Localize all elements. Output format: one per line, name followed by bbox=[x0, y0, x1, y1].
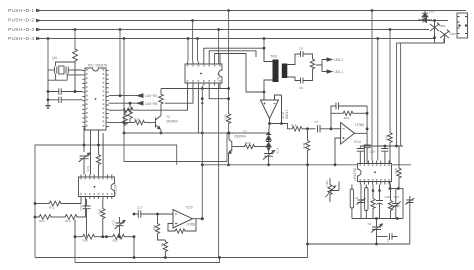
resistor R21 vert bbox=[328, 183, 332, 196]
zener ZD2 bbox=[440, 30, 450, 39]
wire base to T2 bbox=[146, 122, 156, 124]
wire top rail bbox=[360, 145, 403, 147]
resistor R33 vert bbox=[157, 214, 159, 222]
wire fb right col bbox=[366, 106, 368, 133]
wire drop x188 bbox=[187, 39, 189, 62]
node y133-228 bbox=[227, 132, 230, 135]
node output bbox=[268, 122, 271, 125]
wire pin down r36 bbox=[372, 185, 374, 198]
transformer TR3 secondary bbox=[282, 64, 288, 79]
node L1-372 bbox=[371, 9, 374, 12]
wire pin8 top bbox=[215, 54, 264, 93]
wire frame left bbox=[35, 145, 177, 258]
node frame a bbox=[83, 144, 86, 147]
op-amp IC20 bbox=[173, 210, 193, 229]
wire gnd col bbox=[47, 70, 49, 106]
wire y188 bbox=[390, 188, 403, 190]
node row-106 bbox=[105, 235, 108, 238]
resistor R14 bbox=[37, 215, 53, 220]
svg-text:C15: C15 bbox=[86, 166, 90, 172]
wire T2 emitter down bbox=[160, 130, 162, 134]
ground caps bbox=[45, 106, 50, 109]
svg-text:ZD1: ZD1 bbox=[440, 24, 446, 28]
resistor R31 vert bbox=[101, 207, 105, 220]
wire laser B bbox=[109, 102, 137, 104]
wire lower input loop bbox=[168, 224, 174, 232]
diode D10 bbox=[422, 11, 428, 20]
wire bus PUSH-D1 bbox=[41, 10, 466, 12]
svg-text:LED-1: LED-1 bbox=[334, 70, 343, 74]
wire pin down r31 bbox=[102, 199, 104, 207]
PIC TO IC16 LINKS bbox=[79, 128, 104, 175]
wire feedback bbox=[270, 95, 282, 124]
node ZD-top bbox=[433, 19, 436, 22]
node toprail-396 bbox=[395, 145, 398, 148]
resistor R17 bbox=[310, 58, 314, 71]
node laserA x115 bbox=[119, 94, 122, 97]
wire xtal gnd rail bbox=[48, 79, 67, 81]
ic IC16 top pins bbox=[81, 175, 112, 178]
wire p2 stubs bbox=[365, 185, 367, 219]
trimmer C15 bbox=[79, 153, 91, 162]
wire botpin1 bbox=[136, 86, 188, 111]
svg-text:PUSH~D-3: PUSH~D-3 bbox=[8, 27, 34, 32]
node c14 row bbox=[118, 235, 121, 238]
wire pic pin down a bbox=[84, 128, 85, 152]
resistor R29 base bbox=[133, 120, 146, 124]
wire r18 to c bbox=[304, 128, 316, 130]
node br-307 bbox=[306, 243, 309, 246]
resistor R19 vert bbox=[307, 129, 309, 139]
wire secondary top bbox=[287, 54, 300, 65]
wire drop x115 bbox=[119, 30, 121, 96]
MID BUS Y133 bbox=[123, 132, 269, 135]
svg-text:C7: C7 bbox=[315, 120, 319, 124]
wire pic pin down c bbox=[98, 130, 100, 153]
LONG MID RAIL bbox=[124, 133, 411, 166]
terminal arrow LED1 bbox=[327, 70, 332, 73]
wire pin down x364 bbox=[363, 146, 365, 161]
node y164-308 bbox=[306, 163, 309, 166]
trimmer C14 bbox=[115, 217, 126, 229]
wire y164 rail bbox=[202, 164, 411, 166]
capacitor C27 right bbox=[405, 196, 414, 244]
node L3-390 bbox=[389, 28, 392, 31]
wire y128 to r18 bbox=[282, 124, 291, 129]
capacitor C10 bbox=[59, 88, 64, 94]
wire base bbox=[232, 146, 243, 148]
wire bottom rail bbox=[352, 218, 403, 220]
svg-text:R10: R10 bbox=[83, 239, 89, 243]
wire fb right bbox=[187, 219, 197, 231]
svg-text:R15: R15 bbox=[65, 219, 71, 223]
wire botpin2 bbox=[165, 86, 193, 104]
TOP RIGHT PROTECTION CLUSTER bbox=[418, 11, 450, 44]
wire bus PUSH-D4 bbox=[41, 38, 435, 40]
svg-text:2N3904: 2N3904 bbox=[234, 135, 246, 139]
node L1-228 bbox=[227, 9, 230, 12]
wire drop x372 bbox=[371, 11, 373, 161]
wire botpin5 long bbox=[201, 86, 203, 219]
wire chain bbox=[268, 147, 270, 154]
diode D9 bbox=[266, 140, 271, 147]
ic IC18 body bbox=[358, 164, 392, 182]
wire T2 collector up bbox=[160, 106, 162, 116]
op-amp IC20 marks bbox=[175, 214, 177, 225]
wire to opamp bbox=[331, 128, 341, 130]
wire drop x264 bbox=[263, 39, 265, 63]
wire pin to R26 bbox=[109, 109, 122, 111]
resistor R-pullup bbox=[73, 47, 78, 63]
wire drop x124 bbox=[123, 39, 125, 134]
node cap-in bbox=[133, 213, 136, 216]
wire xtal to pin9 bbox=[56, 62, 83, 70]
op-amp IC15 marks bbox=[264, 103, 276, 105]
wire output bbox=[355, 133, 368, 145]
node base x121 bbox=[123, 121, 126, 124]
resistor R34 vert bbox=[163, 240, 167, 253]
wire T1 collector bbox=[229, 133, 232, 142]
node chain mid bbox=[267, 147, 270, 150]
svg-text:C12: C12 bbox=[276, 148, 280, 154]
trimmer C14 arrow bbox=[123, 221, 125, 223]
transistor T2 emitter arrow bbox=[158, 126, 161, 129]
wire cap to opamp bbox=[151, 213, 173, 215]
svg-text:LAS~RA: LAS~RA bbox=[145, 94, 158, 98]
terminal arrow D2 bbox=[36, 19, 42, 23]
PIC MICROCONTROLLER bbox=[56, 62, 109, 130]
wire r33 down bbox=[158, 235, 166, 240]
node L4-121 bbox=[123, 37, 126, 40]
svg-text:C17: C17 bbox=[137, 206, 143, 210]
wire output down bbox=[269, 119, 271, 124]
trimmer C25 bbox=[371, 219, 383, 233]
trimmer C15 arrow bbox=[88, 153, 90, 155]
capacitor C11 bbox=[59, 97, 64, 103]
IC15 COMPARATOR (down) bbox=[261, 92, 289, 125]
ic IC16 center dot bbox=[94, 186, 96, 188]
wire pic pin down b bbox=[90, 130, 92, 175]
node T1 collector bbox=[228, 132, 231, 135]
wire x75 stub bbox=[74, 220, 76, 237]
node c23 top bbox=[378, 189, 381, 192]
svg-text:C6: C6 bbox=[355, 196, 359, 200]
ic U1 PIC body bbox=[85, 68, 106, 130]
capacitor C-out bbox=[364, 145, 371, 165]
crystal Q4 bbox=[59, 66, 64, 74]
wire secondary bottom bbox=[287, 77, 300, 81]
wire pic pin down d bbox=[102, 133, 104, 175]
trimpot P2 tall bbox=[365, 188, 368, 211]
node B1-219 bbox=[218, 256, 221, 259]
ic U1 left pins bbox=[82, 71, 85, 127]
zener ZD1 bbox=[430, 23, 440, 32]
node emitter bbox=[160, 132, 163, 135]
node row-134 bbox=[133, 235, 136, 238]
wire left input bbox=[263, 92, 265, 100]
wire botpin4 bbox=[209, 86, 228, 99]
op-amp IC15 bbox=[261, 100, 279, 119]
node y164-202 bbox=[201, 163, 204, 166]
svg-text:IC20: IC20 bbox=[186, 206, 193, 210]
wire cap row2 bbox=[48, 99, 82, 101]
pin numbers IC18 bbox=[360, 164, 390, 180]
wire botpin3 bbox=[197, 86, 199, 134]
pin numbers IC16 bbox=[80, 178, 112, 195]
transistor T2 bbox=[156, 116, 162, 130]
capacitor C9 bbox=[301, 78, 308, 84]
node x75-91 bbox=[74, 90, 77, 93]
svg-text:LM13700: LM13700 bbox=[353, 167, 357, 181]
wire out cap row bbox=[134, 213, 138, 215]
wire r21 top bbox=[329, 178, 331, 183]
wire r37 down bbox=[390, 212, 392, 219]
svg-text:74L02: 74L02 bbox=[217, 72, 221, 81]
ic IC18 center dot bbox=[374, 171, 376, 173]
wire collector to y88 bbox=[160, 89, 162, 93]
wire r27 down bbox=[129, 121, 131, 123]
resistor R35 bbox=[397, 167, 401, 180]
resistor R10 bbox=[81, 234, 97, 239]
node fb r1 bbox=[366, 112, 369, 115]
transistor T1 bbox=[229, 142, 232, 154]
IC18 BOTTOM CAPS bbox=[306, 165, 414, 246]
resistor R20 bbox=[243, 144, 256, 148]
resistor R36 vert bbox=[371, 197, 375, 210]
BOTTOM LEFT FRAME bbox=[35, 145, 308, 263]
wire r21 bottom bbox=[330, 182, 339, 203]
svg-text:C13: C13 bbox=[79, 205, 83, 211]
node y103-202 bbox=[201, 102, 203, 104]
terminal arrow D1 bbox=[36, 9, 42, 13]
capacitor C13 bbox=[83, 199, 91, 237]
wire c12 down bbox=[268, 156, 270, 165]
svg-text:R13: R13 bbox=[224, 114, 228, 120]
LEFT RESISTOR ROWS bbox=[34, 199, 86, 223]
ic U1 center dot bbox=[95, 98, 97, 100]
connector J1 bbox=[457, 13, 468, 38]
node primary bottom bbox=[263, 91, 266, 94]
resistor R27 vertical bbox=[129, 103, 131, 104]
capacitor C-xtal2 bbox=[66, 67, 68, 74]
trimmer C12 bbox=[263, 151, 275, 160]
diode D8 bbox=[266, 134, 271, 141]
pin numbers IC17 bbox=[187, 65, 221, 82]
wire rail B1 bbox=[35, 245, 308, 258]
wire pin down r37 bbox=[390, 185, 392, 200]
wire drop x75 bbox=[74, 30, 76, 48]
LED TERMINALS bbox=[316, 58, 343, 74]
resistor R30 vert bbox=[96, 153, 100, 166]
node cap1 bbox=[47, 90, 50, 93]
IC16 XR2206 bbox=[79, 175, 118, 200]
node out y164 bbox=[366, 163, 369, 166]
resistor R15 bbox=[63, 215, 79, 220]
ic IC16 body bbox=[79, 177, 115, 197]
svg-text:R35: R35 bbox=[394, 168, 398, 174]
node lower input bbox=[334, 163, 337, 166]
wire bus PUSH-D3 bbox=[41, 29, 429, 31]
svg-text:R21: R21 bbox=[325, 181, 329, 187]
wire primary bottom bbox=[264, 80, 273, 92]
trimmer C24 bbox=[391, 189, 401, 219]
wire xtal cap stubs bbox=[56, 74, 68, 81]
node R12 left bbox=[34, 202, 37, 205]
capacitor C26 bbox=[390, 233, 398, 239]
node L2-192 bbox=[191, 19, 194, 22]
svg-text:LF356: LF356 bbox=[285, 110, 289, 119]
svg-text:C16: C16 bbox=[370, 150, 376, 154]
wire r24 right bbox=[355, 112, 368, 114]
wire lower input bbox=[335, 138, 341, 165]
BELOW IC16 bbox=[74, 199, 136, 258]
resistor R28 vertical bbox=[124, 110, 126, 113]
node feedback bbox=[280, 122, 283, 125]
svg-text:T1: T1 bbox=[243, 130, 247, 134]
T1 AND DIODE CHAIN bbox=[227, 124, 279, 167]
wire drop x228 bbox=[228, 11, 230, 134]
svg-text:C18: C18 bbox=[385, 195, 391, 199]
terminal arrow LED2 bbox=[327, 58, 332, 61]
wire drop x218 long bbox=[218, 30, 220, 258]
capacitor C7 series bbox=[318, 125, 332, 133]
wire r35 right bbox=[398, 146, 400, 167]
wire output to chain bbox=[268, 124, 271, 134]
node L4-188 bbox=[187, 37, 190, 40]
svg-text:PIC 16F876: PIC 16F876 bbox=[88, 64, 107, 68]
zener ZD4 horizontal bbox=[418, 18, 432, 23]
capacitor C20 bbox=[357, 146, 364, 161]
T2 DRIVER bbox=[109, 87, 230, 134]
node cap2 bbox=[47, 98, 50, 101]
wire base row bbox=[109, 122, 133, 124]
node pin6 bbox=[74, 90, 77, 93]
pin numbers U1 bbox=[86, 69, 104, 127]
wire y88 rail bbox=[161, 88, 229, 90]
ic IC16 bottom pins bbox=[81, 197, 112, 200]
svg-text:Q4: Q4 bbox=[52, 56, 57, 60]
wire primary top bbox=[264, 48, 273, 61]
op-amp IC14 bbox=[341, 123, 355, 145]
wire to R12 bbox=[35, 203, 47, 205]
svg-text:LED-2: LED-2 bbox=[334, 58, 343, 62]
wire drop x192 bbox=[192, 21, 194, 62]
node fb left bbox=[330, 127, 333, 130]
svg-text:T2: T2 bbox=[166, 115, 170, 119]
svg-text:C19: C19 bbox=[394, 195, 400, 199]
wire r12 right bbox=[63, 199, 81, 204]
wire c25 down bbox=[376, 230, 378, 245]
wire led bracket bbox=[316, 60, 327, 72]
transformer TR3 primary bbox=[273, 60, 279, 83]
resistor R25 collector bbox=[159, 93, 163, 106]
resistor R12 bbox=[47, 201, 63, 206]
node brail-376 bbox=[375, 217, 378, 220]
capacitor C21 bbox=[381, 146, 388, 161]
wire zd2 bbox=[444, 35, 446, 44]
wire c26 row bbox=[377, 236, 388, 238]
wire r31 down bbox=[102, 220, 104, 237]
trimmer C25 arrow bbox=[380, 224, 382, 226]
node y188-398 bbox=[397, 187, 400, 190]
terminal arrow laserA bbox=[137, 94, 143, 98]
node emitter y164 bbox=[227, 163, 230, 166]
svg-text:R29: R29 bbox=[134, 117, 140, 121]
wire crystal right bbox=[68, 69, 75, 71]
wire r34 down bbox=[164, 253, 166, 258]
wire drop x377 bbox=[377, 39, 379, 161]
terminal arrow D4 bbox=[36, 37, 42, 41]
svg-text:R12: R12 bbox=[49, 206, 55, 210]
wire pin7 top bend bbox=[209, 51, 256, 62]
svg-text:R24: R24 bbox=[344, 116, 350, 120]
svg-text:5K: 5K bbox=[160, 243, 164, 247]
wire right input feedback top bbox=[275, 95, 282, 100]
wire y133 bbox=[124, 132, 269, 134]
wire pin6 top bend bbox=[204, 48, 264, 61]
IC14 AMPLIFIER bbox=[282, 103, 376, 167]
node toprail-385 bbox=[384, 145, 387, 148]
op-amp IC14 marks bbox=[343, 129, 345, 139]
resistor R13 bbox=[226, 112, 230, 125]
wire right col 400 bbox=[400, 43, 402, 146]
wire pin9 top stub bbox=[219, 54, 221, 62]
svg-text:R11: R11 bbox=[113, 239, 119, 243]
svg-text:R22: R22 bbox=[385, 135, 389, 141]
wire output bbox=[193, 218, 203, 220]
wire rail B2 bbox=[75, 258, 220, 263]
svg-text:2N3904: 2N3904 bbox=[166, 120, 178, 124]
node L3-218 bbox=[217, 28, 220, 31]
node y48-264 bbox=[263, 47, 266, 50]
wire c8 to r17 bbox=[307, 54, 313, 58]
node B1-165 bbox=[164, 256, 167, 259]
node L3-115 bbox=[119, 28, 122, 31]
svg-text:PUSH~D-4: PUSH~D-4 bbox=[8, 36, 34, 41]
svg-text:R31: R31 bbox=[98, 209, 102, 215]
wire bottom right rail bbox=[308, 243, 410, 245]
node output IC20 bbox=[201, 217, 204, 220]
capacitor C-fb bbox=[334, 103, 368, 110]
wire r35 down bbox=[398, 180, 400, 189]
wire loop left bbox=[124, 133, 227, 162]
R21 TRIMMER LEFT bbox=[325, 178, 339, 202]
node B1-134 bbox=[133, 256, 136, 259]
trimmer R21 arrow bbox=[326, 186, 336, 197]
svg-text:IC14: IC14 bbox=[354, 140, 361, 144]
svg-text:R20: R20 bbox=[245, 141, 251, 145]
wire r20 to chain bbox=[256, 146, 269, 148]
svg-text:LAS~RB: LAS~RB bbox=[145, 102, 157, 106]
wire r22 down bbox=[389, 144, 391, 189]
wire T1 emitter down bbox=[228, 154, 230, 165]
trimmer C12 arrow bbox=[272, 151, 274, 153]
wire B2 left vert bbox=[74, 237, 76, 263]
wire cap row1 bbox=[48, 91, 82, 93]
BOTTOM RIGHT IC18 CLUSTER bbox=[353, 145, 403, 190]
svg-text:15K: 15K bbox=[152, 225, 156, 230]
wire r30 to pin bbox=[98, 166, 100, 175]
terminal arrow D3 bbox=[36, 28, 42, 32]
wire botpin7 bbox=[219, 86, 221, 89]
wire c15 to pin bbox=[83, 159, 85, 175]
node laserB x130 bbox=[129, 102, 132, 105]
wire 134 down bbox=[133, 237, 135, 258]
wire p1 stubs bbox=[351, 185, 353, 219]
ic IC18 top pins bbox=[360, 161, 389, 164]
node y98-202 bbox=[201, 97, 204, 100]
terminal arrow laserB bbox=[137, 101, 143, 105]
